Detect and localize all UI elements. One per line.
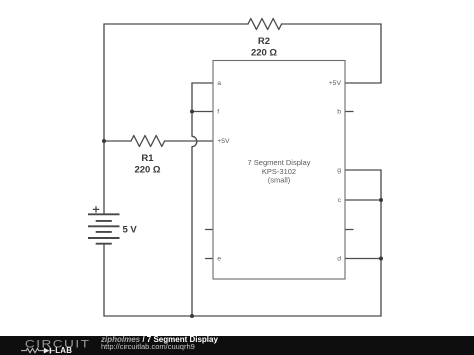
resistor R1 label: [141, 153, 154, 164]
footer title text: [101, 336, 401, 355]
wire pin f: [192, 111, 213, 113]
resistor R2 value: [251, 48, 277, 59]
svg-text:+5V: +5V: [217, 138, 230, 145]
svg-text:R2: R2: [258, 36, 270, 47]
svg-text:LAB: LAB: [55, 346, 72, 355]
pin stub right row6: [345, 229, 353, 231]
wire R1 to +5V pin (passes under hop): [165, 140, 213, 142]
svg-text:e: e: [217, 256, 221, 263]
wire pin a: [192, 82, 213, 84]
resistor R1 value: [134, 165, 160, 176]
pin label f: [217, 109, 219, 116]
svg-text:220 Ω: 220 Ω: [251, 48, 277, 59]
svg-text:f: f: [217, 109, 219, 116]
pin label d: [337, 256, 341, 263]
7-segment display U1 box: [213, 61, 345, 280]
svg-text:c: c: [338, 197, 342, 204]
CircuitLab logo: [0, 336, 95, 355]
pin b stub: [345, 111, 353, 113]
svg-text:R1: R1: [141, 153, 154, 164]
U1 title text: [248, 158, 311, 184]
wire battery negative to bottom rail: [103, 244, 105, 316]
wire pin c: [345, 199, 381, 201]
junction node left bus / bottom rail: [190, 314, 194, 318]
pin stub left row6: [206, 229, 214, 231]
wire R1 branch from left rail: [104, 140, 131, 142]
pin label b: [337, 109, 341, 116]
wire R2 to top-right corner: [282, 23, 381, 25]
logo resistor-diode mark: [21, 348, 44, 352]
junction node pin f: [190, 110, 194, 114]
wire pin d: [345, 258, 381, 260]
resistor R2: [248, 19, 282, 30]
svg-text:7 Segment Display: 7 Segment Display: [248, 158, 311, 167]
pin label g: [337, 167, 341, 174]
svg-text:+5V: +5V: [329, 80, 342, 87]
resistor R2 label: [258, 36, 270, 47]
svg-text:d: d: [337, 256, 341, 263]
wire left bus: pin a to hop, hop over R1 wire, down to bottom rail: [192, 83, 197, 316]
wire bottom rail: [104, 315, 381, 317]
svg-text:(small): (small): [268, 176, 291, 185]
junction node pin c: [379, 198, 383, 202]
battery V1: [88, 206, 120, 244]
junction node pin d: [379, 257, 383, 261]
svg-text:5 V: 5 V: [123, 224, 138, 235]
svg-text:220 Ω: 220 Ω: [134, 165, 160, 176]
pin label c: [338, 197, 342, 204]
wire left vertical from top to battery: [103, 24, 105, 214]
wire pin g: [345, 169, 381, 171]
wire right bus g-c-d to bottom rail: [380, 170, 382, 316]
wire right +5V riser: [345, 24, 381, 83]
pin label +5V left: [217, 138, 230, 145]
pin label a: [217, 80, 221, 87]
footer bar: [0, 336, 474, 355]
pin label e: [217, 256, 221, 263]
svg-text:a: a: [217, 80, 221, 87]
resistor R1: [131, 136, 165, 147]
wire top-left horizontal (node to R2): [104, 23, 248, 25]
junction node R1 branch: [102, 139, 106, 143]
pin e stub: [206, 258, 214, 260]
battery value 5 V: [123, 224, 138, 235]
battery plus sign: [93, 206, 99, 212]
pin label +5V right: [329, 80, 342, 87]
svg-text:b: b: [337, 109, 341, 116]
svg-text:g: g: [337, 167, 341, 174]
